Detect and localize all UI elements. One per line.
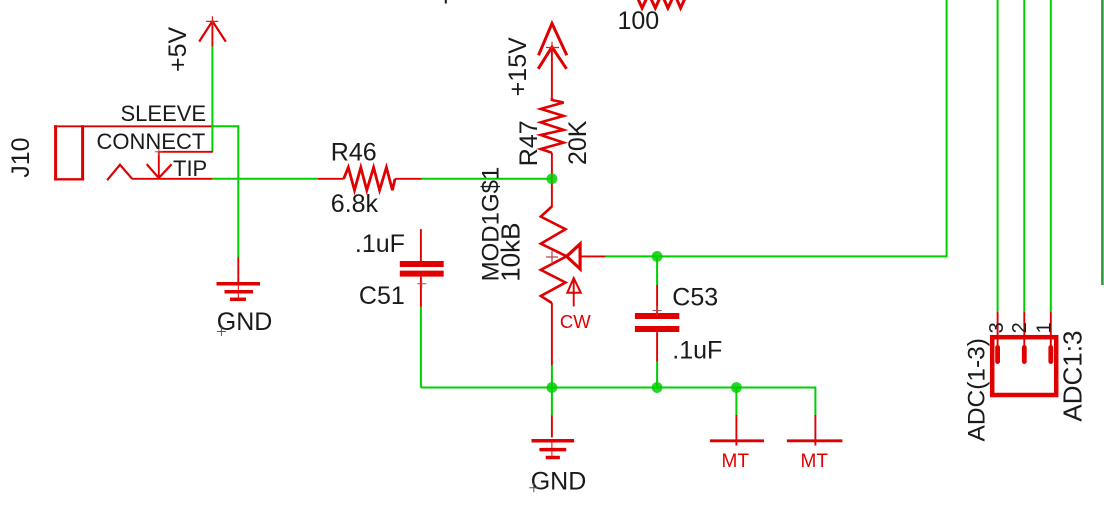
wire ADC pin 3 <box>997 0 999 312</box>
resistor 100 partial top <box>636 0 687 8</box>
wire node to C53 <box>656 256 658 285</box>
resistor R46 <box>318 167 422 190</box>
svg-text:GND: GND <box>531 468 587 496</box>
origin cross GND1 <box>217 327 226 336</box>
capacitor C53 <box>635 285 679 362</box>
svg-text:CONNECT: CONNECT <box>97 129 206 154</box>
wire wiper riser <box>946 0 948 257</box>
connector ADC1:3 <box>992 312 1056 395</box>
junction bus/MT1 <box>731 382 742 393</box>
wire C51 to bus <box>420 307 422 388</box>
wire ground bus <box>421 387 816 389</box>
svg-text:2: 2 <box>1009 322 1031 333</box>
svg-text:TIP: TIP <box>173 156 207 181</box>
ground GND2 symbol <box>532 415 575 457</box>
bus dark green edge line <box>1101 0 1104 285</box>
wire R46 to R47 node <box>422 178 552 180</box>
svg-text:20K: 20K <box>564 120 592 165</box>
ground GND1 symbol <box>217 257 261 299</box>
wire ADC pin 2 <box>1023 0 1025 312</box>
origin cross C51 <box>417 279 426 288</box>
svg-text:R47: R47 <box>515 120 543 166</box>
pot CW arrow <box>567 278 581 306</box>
connector J10 <box>54 125 213 180</box>
svg-text:SLEEVE: SLEEVE <box>121 101 207 126</box>
mount MT2 <box>787 415 843 446</box>
origin cross J10 switch <box>155 148 163 156</box>
pin pad 3 <box>995 345 1000 364</box>
svg-text:.1uF: .1uF <box>355 230 405 258</box>
svg-text:R46: R46 <box>331 139 377 167</box>
supply +5V symbol <box>199 21 226 46</box>
svg-text:MT: MT <box>801 451 829 472</box>
svg-text:ADC(1-3): ADC(1-3) <box>964 338 991 441</box>
wire sleeve to GND vertical <box>237 125 239 257</box>
junction node R47/pot <box>547 173 558 184</box>
wire C53 to bus <box>656 362 658 388</box>
stray text tick top <box>445 0 447 4</box>
svg-text:+5V: +5V <box>164 26 192 72</box>
capacitor C51 <box>400 229 444 307</box>
origin cross +15V <box>546 42 559 51</box>
wire bus to MT1 <box>735 388 737 416</box>
wire bus to MT2 <box>814 387 816 416</box>
wire +5V drop <box>211 47 213 152</box>
svg-text:C53: C53 <box>672 284 718 312</box>
svg-text:MT: MT <box>722 451 750 472</box>
svg-text:3: 3 <box>986 322 1008 333</box>
origin cross C53 <box>653 306 662 315</box>
origin cross pot <box>546 251 558 265</box>
origin cross +5V <box>206 16 218 26</box>
wire sleeve jog horizontal <box>211 125 238 127</box>
svg-text:6.8k: 6.8k <box>331 190 379 218</box>
wire ADC pin 1 <box>1050 0 1052 312</box>
svg-text:1: 1 <box>1034 322 1056 333</box>
junction node wiper/C53 <box>652 251 663 262</box>
svg-text:ADC1:3: ADC1:3 <box>1057 331 1087 422</box>
svg-text:J10: J10 <box>7 137 35 177</box>
pin pad 2 <box>1022 345 1027 364</box>
resistor R47 <box>541 98 564 153</box>
svg-text:.1uF: .1uF <box>672 337 722 365</box>
origin cross GND2 <box>529 483 538 492</box>
potentiometer MOD1G$1 <box>541 153 606 366</box>
svg-text:C51: C51 <box>359 282 405 310</box>
svg-text:100: 100 <box>618 7 660 35</box>
supply +15V symbol <box>538 23 567 97</box>
wire TIP to R46 <box>212 178 318 180</box>
junction bus/C53 <box>652 382 663 393</box>
svg-text:+15V: +15V <box>504 37 532 96</box>
pin pad 1 <box>1048 345 1053 364</box>
junction bus/GND2 <box>547 382 558 393</box>
wire bus to GND2 <box>551 388 553 416</box>
mount MT1 <box>710 415 764 446</box>
svg-text:CW: CW <box>560 311 591 332</box>
wire pot bottom to bus <box>551 366 553 388</box>
wire wiper run <box>606 255 947 257</box>
svg-text:10kB: 10kB <box>496 223 526 282</box>
